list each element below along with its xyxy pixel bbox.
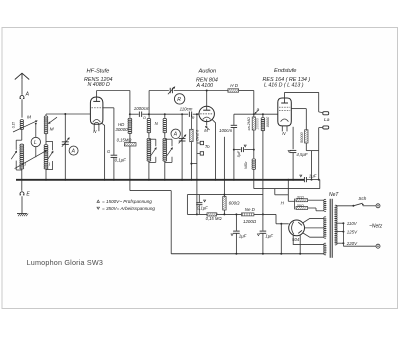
rectifier anode wires [303, 218, 324, 223]
tube V3 RES 164 [278, 98, 292, 126]
svg-text:125V: 125V [347, 229, 358, 234]
V3 top cap wire [284, 92, 286, 103]
svg-text:600Ω: 600Ω [229, 201, 241, 206]
rectifier filament wires [293, 235, 323, 244]
capacitor 4.5uF [292, 127, 294, 149]
heater winding 1 [324, 199, 326, 211]
svg-text:L: L [34, 140, 37, 146]
switch bracket 3 [149, 138, 156, 140]
wire B plus to rectifier [275, 214, 277, 223]
V1 cathode arc [93, 120, 101, 123]
af choke NfDr [252, 159, 256, 170]
regeneration knob R [174, 94, 184, 104]
wave switch bracket right [46, 140, 53, 142]
coupling arrow M [13, 121, 37, 132]
svg-text:1μF: 1μF [239, 234, 247, 239]
svg-text:La: La [324, 117, 330, 123]
capacitor 100cm [233, 114, 235, 125]
svg-text:Sch: Sch [358, 196, 366, 201]
tuning var cap 2 [181, 114, 183, 180]
V2 grid dashes [200, 113, 213, 115]
regeneration wire [149, 90, 169, 92]
wire audion grid drop [196, 114, 198, 214]
secondary coil [44, 116, 48, 134]
speaker terminal La 2 [323, 126, 329, 129]
heater center wire [287, 180, 289, 202]
coupling arrow between coils [15, 151, 47, 169]
capacitor 1uF b [262, 214, 264, 230]
wire B plus top line [187, 194, 263, 196]
arrow M2 [49, 117, 57, 123]
rectifier heater winding [324, 243, 326, 255]
note working voltage [97, 207, 100, 209]
svg-text:Ne D: Ne D [245, 207, 256, 212]
svg-text:M: M [50, 126, 54, 132]
wire to B plus [262, 130, 264, 214]
grid leak 0.3M [190, 114, 192, 129]
V1 anode bar [93, 100, 100, 102]
svg-text:= 1500V~ Prüfspannung: = 1500V~ Prüfspannung [102, 199, 152, 204]
pickup terminal To 1 [200, 141, 203, 144]
resistor 0.15M block [207, 213, 217, 216]
coil L1 [20, 144, 24, 169]
svg-text:H D: H D [230, 83, 239, 88]
svg-text:110cm: 110cm [180, 106, 193, 111]
V1 heater pins [93, 124, 95, 131]
svg-text:0,1μF: 0,1μF [115, 158, 127, 163]
svg-text:100000: 100000 [256, 118, 260, 129]
svg-text:D: D [143, 116, 146, 120]
svg-text:0,15: 0,15 [12, 122, 16, 128]
svg-text:ca.2MΩ: ca.2MΩ [247, 117, 251, 130]
svg-text:50000: 50000 [300, 132, 304, 143]
svg-text:1μF: 1μF [265, 234, 273, 239]
resistor 600 [223, 137, 225, 197]
pickup terminal To 2 [200, 152, 203, 155]
wire top coupling [234, 113, 254, 115]
svg-text:4,5μF: 4,5μF [296, 152, 308, 157]
speaker terminal La 1 [323, 112, 329, 115]
svg-text:R: R [177, 97, 181, 103]
switch bracket 4 [165, 138, 172, 140]
wire grid top left [45, 114, 47, 115]
HV winding [324, 217, 326, 238]
svg-text:1000cm: 1000cm [134, 106, 150, 111]
svg-text:30000: 30000 [266, 117, 270, 128]
svg-text:NeT: NeT [329, 192, 339, 198]
wire to lower bus [280, 224, 282, 254]
earth terminal E [21, 180, 23, 191]
capacitor 1000cm [130, 113, 139, 115]
antenna [15, 73, 29, 79]
choke HD 30000 [128, 118, 132, 133]
V3 cathode side wire [291, 108, 306, 110]
tuning knob A2 [171, 129, 180, 138]
svg-text:Audion: Audion [198, 69, 217, 75]
ground [17, 213, 27, 215]
svg-text:A: A [25, 92, 30, 98]
svg-text:100cm: 100cm [219, 128, 233, 133]
V2 anode bar [203, 109, 210, 111]
tuning knob A1 [69, 146, 78, 155]
V2 cathode wires [206, 119, 208, 125]
wave switch bracket left [16, 139, 22, 141]
capacitor 5uF [234, 149, 241, 151]
svg-text:220V: 220V [346, 241, 358, 246]
antenna terminal A [20, 95, 24, 98]
V1 grid side wire [103, 107, 114, 109]
svg-text:R: R [192, 116, 195, 120]
svg-text:= 350V= Arbeitsspannung: = 350V= Arbeitsspannung [102, 206, 155, 211]
svg-text:N 4080 D: N 4080 D [88, 82, 111, 88]
stub wire [191, 163, 197, 165]
tuning branch wire [64, 114, 66, 180]
capacitor 1uF output [300, 175, 302, 177]
V3 anode bar [281, 102, 288, 104]
wire resistor bottom [306, 150, 318, 152]
primary winding [335, 205, 337, 245]
capacitor 1uF a [235, 214, 237, 230]
grid leak ca 2M [252, 117, 255, 130]
V3 anode wire to speaker [285, 91, 319, 93]
svg-text:A 4100: A 4100 [196, 83, 214, 89]
capacitor 0.1uF block [198, 195, 200, 203]
lower bus wire [171, 253, 323, 255]
resistor 50000 [305, 130, 308, 143]
svg-text:A: A [71, 148, 76, 154]
screen feed wire [129, 91, 131, 118]
svg-text:30Ω: 30Ω [297, 204, 304, 208]
regeneration trimmer cap [169, 88, 171, 93]
V2 cathode arc [203, 117, 211, 119]
svg-text:30000: 30000 [115, 127, 128, 132]
coil L4 [163, 138, 167, 161]
svg-text:~Netz: ~Netz [369, 223, 383, 229]
svg-text:HD: HD [118, 122, 125, 127]
V1 grid dashes [91, 107, 103, 109]
V3 grid dashes [279, 106, 290, 108]
V1 top cap wire [96, 91, 98, 102]
volume control L [35, 123, 37, 137]
ground return step wire [253, 180, 255, 189]
V3 cathode arc [281, 119, 289, 122]
svg-text:110V: 110V [347, 221, 358, 226]
svg-text:Lumophon Gloria SW3: Lumophon Gloria SW3 [27, 258, 104, 267]
V1 cathode wire [102, 123, 105, 179]
svg-text:5μF: 5μF [237, 150, 241, 157]
svg-text:HF-Stufe: HF-Stufe [87, 69, 110, 75]
wire B plus bottom line [187, 213, 207, 215]
note test voltage [97, 200, 100, 202]
svg-text:A: A [173, 132, 178, 138]
svg-text:0,1μF: 0,1μF [197, 205, 208, 210]
svg-text:NfDr: NfDr [244, 161, 248, 169]
svg-text:0,15 MΩ: 0,15 MΩ [206, 216, 223, 221]
svg-text:31Ω: 31Ω [297, 196, 304, 200]
svg-text:M: M [27, 115, 31, 121]
svg-text:M: M [204, 128, 208, 133]
rectifier center wire [305, 227, 324, 229]
V3 heater pins [281, 126, 283, 131]
antenna coil [20, 119, 23, 129]
wire to lower section [130, 190, 171, 192]
primary taps [336, 222, 343, 224]
mains terminal lower [343, 245, 375, 247]
grid wire [149, 113, 188, 115]
svg-text:Endstufe: Endstufe [274, 68, 296, 74]
anode feed drop [253, 91, 255, 118]
rectifier tube 504 [289, 220, 305, 236]
svg-text:To: To [205, 144, 210, 149]
coupling coil 30000 [254, 113, 278, 115]
return wire to output line [319, 180, 321, 189]
V2 grid wire [197, 113, 199, 115]
tube V2 REN 804 [199, 106, 214, 121]
svg-text:1200Ω: 1200Ω [243, 219, 257, 224]
svg-text:L 416 D ( L 413 ): L 416 D ( L 413 ) [264, 83, 304, 89]
svg-text:1μF: 1μF [309, 173, 317, 178]
tuning capacitor var [62, 141, 69, 143]
coil L2 [44, 144, 48, 169]
coil pair [147, 118, 151, 133]
chassis bus [16, 179, 304, 181]
tube V1 RENS 1204 [90, 97, 103, 124]
coil L3 [147, 138, 151, 161]
grid top wire V1 [97, 90, 130, 92]
